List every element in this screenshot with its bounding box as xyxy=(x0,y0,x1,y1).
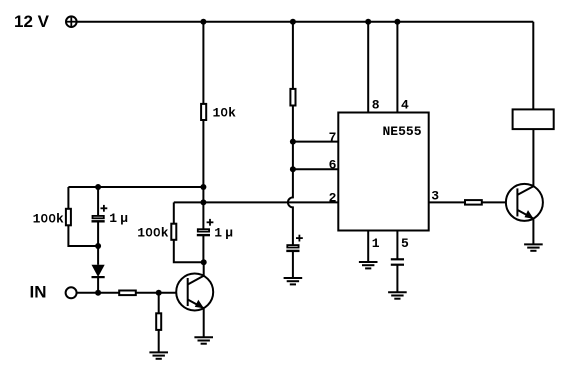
wire pin2 horizontal xyxy=(174,201,338,203)
diode D1 xyxy=(92,246,105,293)
wire base node down xyxy=(158,293,160,314)
wire rail to R2 top xyxy=(292,22,294,89)
svg-text:7: 7 xyxy=(329,130,337,145)
node 12V label xyxy=(14,12,50,31)
resistor R4 series IN xyxy=(119,291,136,296)
wire pin6 xyxy=(293,168,338,170)
svg-text:NE555: NE555 xyxy=(383,124,422,139)
svg-text:100k: 100k xyxy=(33,211,64,226)
resistor R2 unlabeled xyxy=(290,89,295,106)
capacitor C1 1u polarized xyxy=(92,187,129,246)
wire IN line right xyxy=(136,292,176,294)
junction rail-pin4 xyxy=(394,19,400,25)
resistor R5 pulldown xyxy=(156,313,161,330)
pin 1 xyxy=(368,231,380,263)
pin 8 xyxy=(368,22,380,113)
junction rail-10k xyxy=(200,19,206,25)
wire IN line left xyxy=(77,292,120,294)
wire Q1 collector xyxy=(203,262,205,276)
junction node A top of branch1 xyxy=(200,184,206,190)
svg-text:3: 3 xyxy=(431,189,439,204)
svg-text:100k: 100k xyxy=(137,226,168,241)
wire Q2 collector xyxy=(532,129,534,186)
resistor R3 100k xyxy=(33,209,71,227)
wire branch1 left leg lower xyxy=(68,225,98,246)
wire Q2 emitter xyxy=(532,219,534,245)
svg-text:12 V: 12 V xyxy=(14,12,50,31)
wire branch1 top xyxy=(68,186,203,188)
pin 7 label xyxy=(329,130,337,145)
wire branch2 left leg upper xyxy=(173,202,175,223)
resistor R7 100k xyxy=(137,224,176,241)
ground G2 Q1 emitter xyxy=(194,337,213,343)
pin 4 xyxy=(397,22,409,113)
junction pin2 node xyxy=(200,199,206,205)
node IN label xyxy=(30,283,47,302)
pin 3 label xyxy=(431,189,439,204)
capacitor C2 1u polarized xyxy=(197,202,233,262)
junction collector node xyxy=(201,259,207,265)
svg-text:5: 5 xyxy=(401,236,409,251)
junction rail-R2 xyxy=(290,19,296,25)
terminal IN xyxy=(66,287,77,298)
svg-text:8: 8 xyxy=(372,97,380,112)
pin 5 xyxy=(397,231,409,260)
junction rail-pin8 xyxy=(365,19,371,25)
wire top supply rail xyxy=(77,21,534,23)
ground G6 Q2 emitter xyxy=(524,244,543,250)
svg-text:6: 6 xyxy=(329,158,337,173)
wire pin3 resistor to Q2 base xyxy=(482,201,506,203)
resistor 10k xyxy=(201,104,236,121)
ground G1 xyxy=(149,352,168,358)
wire Q1 emitter xyxy=(203,308,205,337)
pin 6 label xyxy=(329,158,337,173)
svg-text:1: 1 xyxy=(372,236,380,251)
relay coil K1 xyxy=(513,109,554,129)
terminal +12V supply xyxy=(66,16,77,27)
pin 2 label xyxy=(329,191,337,206)
wire right drop to relay xyxy=(532,22,534,110)
transistor Q2 xyxy=(506,184,543,221)
junction C1 bottom diode top xyxy=(95,243,101,249)
ground G5 pin5 xyxy=(388,292,407,298)
wire branch1 left leg upper xyxy=(67,187,69,209)
svg-text:2: 2 xyxy=(329,191,337,206)
junction base node xyxy=(156,290,162,296)
transistor Q1 xyxy=(176,274,213,311)
capacitor C4 pin5 xyxy=(391,259,404,292)
junction pin7 xyxy=(290,139,296,145)
wire 10k bottom to junctions xyxy=(202,120,204,202)
capacitor C3 1u polarized xyxy=(286,235,303,278)
junction C1 top xyxy=(95,184,101,190)
resistor R6 pin3 series xyxy=(465,200,482,205)
junction pin6 xyxy=(290,166,296,172)
wire rail to 10k top xyxy=(202,22,204,104)
IC U1 NE555 xyxy=(338,113,428,231)
ground G4 pin1 xyxy=(359,262,378,268)
svg-text:IN: IN xyxy=(30,283,47,302)
junction diode-IN xyxy=(95,290,101,296)
svg-text:4: 4 xyxy=(401,97,409,112)
ground G3 xyxy=(284,278,303,284)
wire R5 to ground xyxy=(158,330,160,353)
wire branch2 left leg lower xyxy=(174,240,204,262)
wire pin3 xyxy=(429,201,465,203)
wire pin7 xyxy=(293,141,338,143)
wire R2 bottom to pin7/pin6 junctions and hop over pin2 line xyxy=(288,106,293,245)
